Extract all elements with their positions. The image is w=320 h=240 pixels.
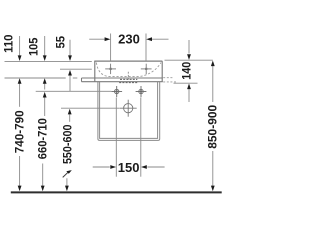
fixing hole left [111,86,122,97]
140 down at rim ext [187,54,191,60]
right rim ext [165,59,213,61]
140 dim tail top [188,40,190,54]
texts [118,32,140,175]
svg-text:550-600: 550-600 [63,125,75,165]
850-900 up at rim ext [211,61,215,67]
svg-text:105: 105 [29,37,41,56]
col C down at rim [68,55,72,61]
drain hidden dashes row2 [119,82,137,84]
140 bottom shaft [188,88,190,102]
svg-text:230: 230 [118,32,140,47]
150 right ← [141,165,147,169]
col A down at floor [18,186,22,192]
slab left end edge [81,78,83,82]
col D (550-600) upper [69,114,71,121]
150 ext lines [115,98,117,177]
left rim ref [5,60,92,62]
slab top [82,77,163,79]
hidden dashes right of basin row1 [163,77,172,79]
svg-text:55: 55 [55,35,67,48]
floor line [11,191,222,193]
col D lower [66,178,68,186]
col D down at floor [65,186,69,192]
svg-text:660-710: 660-710 [38,118,50,159]
drain tick in bowl [127,72,129,79]
col A up at underside [18,78,22,84]
230 ext lines [110,34,112,61]
washbasin front view [82,61,178,83]
140 bottom ref [174,82,198,84]
basin rim top edge [94,60,162,62]
col D up below drain line [68,109,72,115]
svg-text:140: 140 [182,62,194,80]
col D NE arrow [66,170,72,174]
svg-text:150: 150 [118,160,140,175]
tap hole cross right [141,64,152,74]
col B lower [42,164,44,187]
55 ref line [60,68,92,70]
150 tails [93,166,110,168]
svg-text:110: 110 [4,35,16,53]
drain circle [120,100,137,117]
150 left → [110,165,116,169]
underside ref line [5,77,66,79]
inner box [100,82,158,138]
col C up below 55 line [68,70,72,76]
col A down at rim [18,55,22,61]
bowl inner dashed [96,63,160,77]
col B down at rim [43,55,47,61]
col B up at underside [43,78,47,84]
drain ref line [61,107,120,109]
230 dim tails [89,38,108,40]
col A (110 / 740-790) [19,36,21,58]
230 left → [105,37,111,41]
arrowheads (dark) [18,37,215,191]
col B up below fixing line [43,92,47,98]
tap hole cross left [105,64,116,74]
col B down at floor [41,186,45,192]
col B (105 / 660-710) upper [44,36,46,58]
140 up at bottom ref [187,84,191,90]
drain hidden dashes row1 [120,78,137,80]
siphon cover / pedestal [98,82,160,140]
basin left edge [94,61,96,82]
850-900 down at floor [211,186,215,192]
hidden dashes right of basin row2 [163,81,177,83]
850-900 col [212,66,214,103]
230 right ← [146,37,152,41]
outer box [98,82,160,140]
NE arrow shaft [63,171,70,178]
svg-text:740-790: 740-790 [15,110,27,153]
fixing hole right [136,86,147,97]
slab bottom [82,81,163,83]
fixing ref line [36,90,112,92]
svg-text:850-900: 850-900 [208,105,220,149]
basin right edge [161,61,163,82]
col C (55) [69,40,71,58]
